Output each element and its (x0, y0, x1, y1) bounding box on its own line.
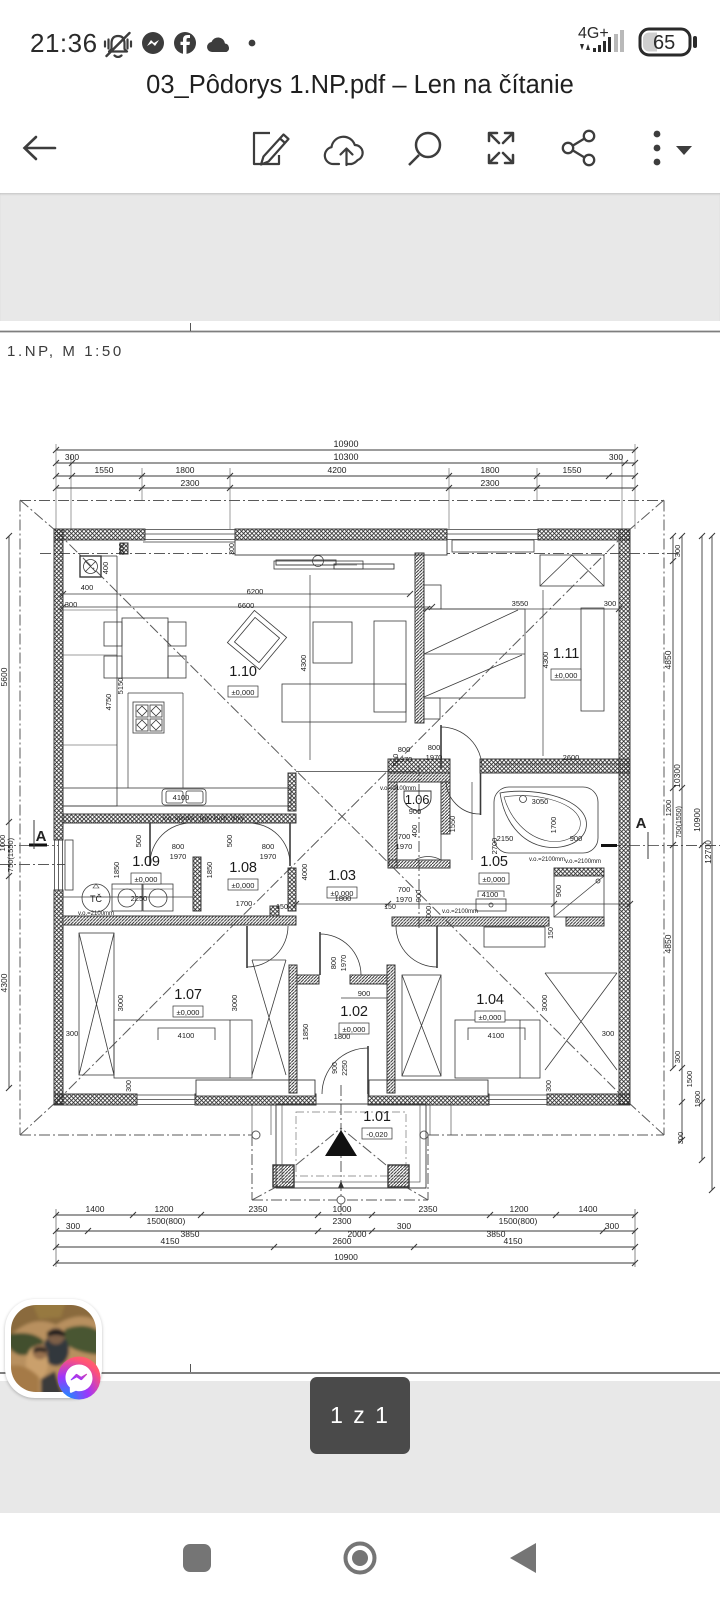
TC heat pump (82, 884, 110, 912)
ticks row1 (53, 447, 638, 491)
top wall hatch left segment (54, 529, 145, 540)
svg-text:±0,000: ±0,000 (177, 1008, 200, 1017)
share icon (563, 131, 594, 165)
hall closet 1.02 top right niche (341, 997, 387, 999)
kitchen counter left (63, 556, 117, 806)
svg-text:4000: 4000 (300, 864, 309, 881)
svg-text:1800: 1800 (176, 465, 195, 475)
door 1.06 (415, 834, 441, 860)
bottom wall hatch segment 2 (195, 1094, 316, 1105)
facebook icon (174, 32, 196, 54)
dot (249, 40, 256, 47)
mute bell icon (105, 33, 131, 57)
svg-text:1.05: 1.05 (480, 854, 508, 870)
svg-text:3550: 3550 (512, 599, 529, 608)
svg-text:300: 300 (546, 1080, 553, 1092)
svg-text:750(1550): 750(1550) (6, 837, 15, 872)
svg-text:1850: 1850 (112, 862, 121, 879)
corridor west wall upper segment (288, 773, 296, 811)
status bar (0, 0, 720, 60)
right dimension lines (672, 536, 674, 1068)
elevation boxes (131, 669, 581, 1139)
shower (554, 876, 604, 917)
nightstands (424, 585, 441, 609)
search icon (409, 133, 440, 165)
kitchen / 1.09 wall (63, 814, 296, 823)
door 1.02 from hall (320, 934, 361, 975)
left wall window (55, 840, 74, 890)
window axis horizontal (40, 553, 680, 555)
svg-text:300: 300 (126, 1080, 133, 1092)
svg-text:2600: 2600 (333, 1236, 352, 1246)
chimney box (80, 556, 101, 577)
cloud upload icon (325, 137, 363, 165)
small dark bars (593, 37, 611, 52)
svg-text:1850: 1850 (301, 1024, 310, 1041)
svg-text:1970: 1970 (260, 852, 277, 861)
dining table (122, 618, 168, 678)
svg-text:2350: 2350 (249, 1204, 268, 1214)
messenger icon (142, 32, 164, 54)
svg-text:5600: 5600 (0, 667, 9, 686)
tv cabinet (274, 561, 363, 569)
svg-text:1200: 1200 (155, 1204, 174, 1214)
top wall hatch right segment (538, 529, 630, 540)
PLAN-TEXT (0, 439, 713, 1262)
kitchen sink (162, 789, 206, 805)
svg-text:900: 900 (414, 890, 423, 903)
svg-text:4300: 4300 (541, 652, 550, 669)
svg-text:4100: 4100 (173, 793, 190, 802)
svg-text:1970: 1970 (339, 955, 348, 972)
svg-text:2300: 2300 (333, 1216, 352, 1226)
bed 1.11 (424, 609, 525, 698)
svg-text:150: 150 (384, 904, 396, 911)
svg-text:1.07: 1.07 (174, 987, 202, 1003)
svg-text:300: 300 (65, 452, 79, 462)
svg-text:900: 900 (358, 989, 371, 998)
pier at corridor junction (270, 906, 279, 916)
chairs (104, 622, 122, 646)
svg-text:300: 300 (676, 1132, 685, 1145)
1 z 1 indicator (310, 1377, 410, 1454)
bed 1.07 (114, 1020, 252, 1078)
hip diagonal bottom-left (20, 1102, 56, 1135)
ottoman square (313, 622, 352, 663)
svg-text:300: 300 (602, 1029, 615, 1038)
kitchen lower counter (63, 788, 291, 806)
svg-text:2250: 2250 (131, 894, 148, 903)
top wall window 1 (143, 530, 235, 543)
svg-text:3850: 3850 (181, 1229, 200, 1239)
PLAN-INTERIOR (63, 553, 630, 1093)
top wall window right (glazing lines) (447, 530, 538, 553)
wardrobe 1.07 left (79, 933, 114, 1075)
dim vertical 1.11 4300 (542, 590, 544, 756)
bath sink (476, 899, 506, 911)
left wall hatch upper (54, 529, 63, 840)
sofa L bottom bench (282, 684, 406, 722)
top wall recessed segment hatch (235, 529, 447, 540)
page header line (0, 331, 720, 333)
svg-text:750(1550): 750(1550) (676, 806, 683, 838)
svg-text:4850: 4850 (663, 650, 673, 669)
svg-text:±0,000: ±0,000 (555, 671, 578, 680)
porch step lines (276, 1187, 426, 1189)
roof outline bottom edges around porch (20, 1134, 252, 1136)
svg-text:12700: 12700 (703, 840, 713, 864)
svg-text:300: 300 (673, 545, 682, 558)
svg-text:±0,000: ±0,000 (483, 875, 506, 884)
roof outline left edge (19, 501, 21, 1136)
svg-text:300: 300 (117, 543, 126, 556)
small dim texts inside plan (65, 543, 617, 1092)
svg-text:10900: 10900 (334, 1252, 358, 1262)
left window axis (0, 864, 75, 866)
svg-text:4100: 4100 (482, 890, 499, 899)
PLAN-FURNITURE (60, 555, 633, 1078)
svg-text:4100: 4100 (488, 1031, 505, 1040)
big gray bars (614, 30, 624, 52)
PLAN-WALLS (54, 529, 630, 1105)
dim line 10300 (56, 462, 635, 464)
svg-text:400: 400 (101, 562, 110, 575)
svg-text:3050: 3050 (532, 797, 549, 806)
1.02 north wall left stub (297, 975, 319, 984)
extension verticals (55, 444, 57, 529)
svg-text:±0,000: ±0,000 (479, 1013, 502, 1022)
dim line 6200 across living (63, 593, 410, 595)
svg-text:TČ: TČ (90, 894, 102, 904)
section A-A line (0, 820, 660, 859)
porch post left (273, 1165, 294, 1187)
entry door 1.02 (322, 1048, 368, 1094)
svg-text:300: 300 (229, 543, 236, 555)
svg-text:1550: 1550 (95, 465, 114, 475)
north triangle (325, 1130, 357, 1156)
svg-text:10900: 10900 (333, 439, 358, 449)
svg-text:2350: 2350 (419, 1204, 438, 1214)
svg-text:1000: 1000 (424, 906, 433, 923)
svg-text:1000: 1000 (333, 1204, 352, 1214)
shower shelf (554, 868, 604, 876)
wardrobe 1.04 right (545, 973, 617, 1070)
svg-text:1970: 1970 (396, 895, 413, 904)
svg-text:300: 300 (66, 1221, 80, 1231)
svg-text:1200: 1200 (510, 1204, 529, 1214)
dim line segments row (56, 475, 635, 477)
PLAN-ROOF (0, 500, 720, 1215)
hip diagonal top-right (628, 500, 664, 531)
gray strip top (area outside pdf page) (0, 193, 720, 321)
hall dim line 1800 (296, 903, 630, 905)
messenger chat head (5, 1299, 102, 1398)
main cross wall right part (480, 759, 630, 773)
svg-text:6600: 6600 (238, 601, 255, 610)
sofa right bench (374, 621, 406, 712)
svg-text:150: 150 (276, 904, 288, 911)
svg-text:1850: 1850 (205, 862, 214, 879)
svg-text:900: 900 (554, 885, 563, 898)
bottom window sill right (369, 1080, 488, 1096)
svg-text:300: 300 (605, 1221, 619, 1231)
svg-text:v.o.·spodia | typu kuch. linky: v.o.·spodia | typu kuch. linky (163, 815, 245, 822)
svg-text:1.02: 1.02 (340, 1004, 368, 1020)
wall 1.07 / 1.02 (289, 965, 297, 1093)
bottom window 2 (489, 1095, 547, 1105)
svg-text:10300: 10300 (333, 452, 358, 462)
1.06 shield outline (404, 791, 431, 811)
right wall hatch (619, 529, 630, 1104)
svg-text:800: 800 (428, 743, 441, 752)
svg-text:500: 500 (391, 754, 400, 767)
svg-text:300: 300 (66, 1029, 79, 1038)
svg-text:2150: 2150 (497, 834, 514, 843)
svg-text:300: 300 (604, 599, 617, 608)
svg-text:2600: 2600 (563, 753, 580, 762)
door 1.08 (249, 823, 290, 864)
svg-text:A: A (36, 828, 47, 845)
svg-text:-0,020: -0,020 (366, 1130, 387, 1139)
svg-text:150: 150 (548, 927, 555, 939)
svg-text:1400: 1400 (579, 1204, 598, 1214)
wardrobe 1.07 right (252, 960, 286, 1075)
svg-text:1400: 1400 (86, 1204, 105, 1214)
porch outer outline (276, 1104, 426, 1188)
svg-text:900: 900 (570, 834, 583, 843)
svg-text:v.o.=2100mm: v.o.=2100mm (529, 857, 565, 863)
svg-text:1800: 1800 (335, 894, 352, 903)
svg-text:1200: 1200 (664, 800, 673, 817)
svg-text:300: 300 (673, 1051, 682, 1064)
svg-text:4750: 4750 (104, 694, 113, 711)
corridor west wall lower segment (288, 868, 296, 911)
bottom gray panel (0, 1381, 720, 1513)
svg-text:1800: 1800 (693, 1091, 702, 1108)
main cross wall (north rooms / south zone) left part (388, 759, 450, 773)
wall 1.09 / 1.08 (193, 857, 201, 911)
washing machines (112, 884, 142, 911)
door 1.04 (396, 926, 437, 967)
svg-text:400: 400 (81, 583, 94, 592)
1.09 dim line (63, 896, 193, 898)
svg-text:4150: 4150 (161, 1236, 180, 1246)
wall 1.02 / 1.04 (387, 965, 395, 1093)
svg-text:1.NP, M 1:50: 1.NP, M 1:50 (7, 343, 124, 360)
svg-text:2250: 2250 (342, 1060, 349, 1076)
porch hip diagonals (296, 1128, 341, 1165)
svg-text:1970: 1970 (170, 852, 187, 861)
porch post right (388, 1165, 409, 1187)
porch side extension right (429, 1104, 431, 1135)
dim line 6600 across living (63, 606, 432, 608)
bed 1.04 (455, 1020, 540, 1078)
svg-text:1970: 1970 (396, 842, 413, 851)
big X diagonal 2 (56, 531, 628, 1102)
svg-text:v.o.=2100mm: v.o.=2100mm (78, 911, 114, 917)
svg-text:10900: 10900 (692, 808, 702, 832)
cloud icon (207, 37, 229, 52)
interior axis vertical (418, 765, 420, 930)
svg-text:1550: 1550 (448, 816, 457, 833)
dim line 2300 row (56, 487, 635, 489)
status right (574, 22, 704, 58)
south wall of 1.09/1.08 (63, 916, 296, 925)
4100 bracket 1.04 (468, 1028, 525, 1040)
bathtub (494, 787, 598, 853)
WC 1.06 walls (diagonal hatch) (388, 773, 450, 868)
left wall hatch lower (54, 890, 63, 1104)
svg-text:4100: 4100 (178, 1031, 195, 1040)
toolbar (0, 118, 720, 188)
svg-text:±0,000: ±0,000 (232, 688, 255, 697)
svg-text:1500: 1500 (685, 1071, 694, 1088)
living room / hall boundary line (296, 771, 416, 773)
svg-text:±0,000: ±0,000 (135, 875, 158, 884)
door 1.11 (441, 727, 482, 768)
svg-text:4300: 4300 (299, 655, 308, 672)
svg-text:300: 300 (397, 1221, 411, 1231)
left dimension line (8, 536, 10, 1088)
svg-text:2300: 2300 (481, 478, 500, 488)
svg-text:1550: 1550 (563, 465, 582, 475)
svg-text:1800: 1800 (481, 465, 500, 475)
svg-text:800: 800 (262, 842, 275, 851)
svg-text:1.10: 1.10 (229, 664, 257, 680)
svg-text:1.11: 1.11 (553, 646, 579, 662)
svg-text:A: A (636, 815, 647, 832)
PLAN-DIMS-SIDES (6, 533, 715, 1193)
svg-text:3000: 3000 (540, 995, 549, 1012)
svg-text:500: 500 (225, 835, 234, 848)
PLAN-DIMS-BOTTOM (53, 1209, 638, 1267)
svg-text:1700: 1700 (549, 817, 558, 834)
svg-text:400: 400 (410, 825, 419, 838)
right axis (610, 845, 720, 847)
bottom window sill left (196, 1080, 315, 1096)
wardrobe 1.04 left (402, 975, 441, 1076)
navbar (0, 1510, 720, 1600)
dim vertical living 4300 (309, 575, 311, 760)
svg-text:v.o.=2100mm: v.o.=2100mm (565, 859, 601, 865)
svg-text:1.04: 1.04 (476, 992, 504, 1008)
wardrobe 1.11 right (581, 608, 604, 711)
rotated small table (227, 610, 286, 669)
wardrobe 1.11 top (540, 555, 604, 586)
svg-text:5150: 5150 (116, 678, 125, 695)
svg-text:6200: 6200 (247, 587, 264, 596)
entry axis vertical (340, 1085, 342, 1215)
svg-text:1800: 1800 (334, 1032, 351, 1041)
svg-text:4850: 4850 (663, 934, 673, 953)
svg-text:1970: 1970 (426, 753, 443, 762)
roof outline top edge (20, 500, 664, 502)
svg-text:1.03: 1.03 (328, 868, 356, 884)
window pier (120, 543, 128, 554)
edit icon (254, 133, 289, 165)
svg-text:700: 700 (398, 885, 411, 894)
dim line 10900 (56, 449, 635, 451)
svg-text:800: 800 (172, 842, 185, 851)
roof outline right edge (663, 501, 665, 1136)
dim line 3550 in 1.11 (427, 608, 619, 610)
battery (640, 29, 697, 55)
PLAN-PORCH (252, 1104, 451, 1188)
svg-text:500: 500 (134, 835, 143, 848)
svg-text:800: 800 (329, 957, 338, 970)
bath south wall right part (566, 917, 604, 926)
svg-text:1.08: 1.08 (229, 860, 257, 876)
sliding door panels (276, 560, 336, 565)
door 1.05 (446, 780, 480, 814)
bottom wall hatch segment 4 (547, 1094, 630, 1105)
fullscreen icon (489, 133, 513, 163)
svg-text:±0,000: ±0,000 (232, 881, 255, 890)
bottom window 1 (137, 1095, 195, 1105)
svg-text:3000: 3000 (230, 995, 239, 1012)
2600 dim line 1.05 top (494, 763, 630, 765)
big X diagonal 1 (56, 531, 628, 1102)
bottom wall hatch segment 3 (368, 1094, 489, 1105)
niche 1.04 top (484, 927, 545, 947)
room labels (131, 646, 581, 1139)
PLAN-DIMS-TOP (53, 444, 638, 529)
svg-text:4200: 4200 (328, 465, 347, 475)
svg-text:1500(800): 1500(800) (147, 1216, 186, 1226)
hip diagonal bottom-right (628, 1102, 664, 1135)
hip diagonal top-left (20, 500, 56, 531)
svg-text:2700: 2700 (490, 838, 499, 855)
svg-text:800: 800 (398, 745, 411, 754)
svg-text:v.o.=2100mm: v.o.=2100mm (442, 909, 478, 915)
door 1.09 (150, 823, 191, 864)
4100 bracket 1.07 (158, 1028, 215, 1040)
svg-text:1.06: 1.06 (405, 792, 430, 807)
svg-text:700: 700 (398, 832, 411, 841)
status icons left (100, 30, 270, 58)
bath south wall (392, 917, 549, 926)
porch side extension left (251, 1104, 253, 1135)
stove (133, 702, 164, 733)
svg-text:2300: 2300 (181, 478, 200, 488)
door 1.07 (247, 926, 288, 967)
svg-text:3000: 3000 (116, 995, 125, 1012)
svg-text:1500(800): 1500(800) (499, 1216, 538, 1226)
svg-text:900: 900 (332, 1062, 339, 1074)
living/bedroom wall stub (415, 553, 424, 723)
svg-text:1.01: 1.01 (363, 1109, 391, 1125)
svg-text:4150: 4150 (504, 1236, 523, 1246)
bottom wall hatch segment 1 (54, 1094, 137, 1105)
title (0, 71, 720, 100)
back arrow (25, 137, 56, 159)
svg-text:1700: 1700 (236, 899, 253, 908)
svg-text:4300: 4300 (0, 973, 9, 992)
doors (150, 725, 482, 1094)
porch inner dashed (296, 1112, 406, 1176)
axis joint circles (252, 1131, 428, 1204)
overflow menu (654, 131, 692, 166)
svg-text:10300: 10300 (672, 764, 682, 788)
svg-text:300: 300 (65, 600, 78, 609)
page bottom line (0, 1372, 720, 1374)
recess box below (terrace door) (235, 540, 447, 555)
1.02 north wall right stub (350, 975, 387, 984)
svg-text:1.09: 1.09 (132, 854, 160, 870)
svg-text:300: 300 (609, 452, 623, 462)
